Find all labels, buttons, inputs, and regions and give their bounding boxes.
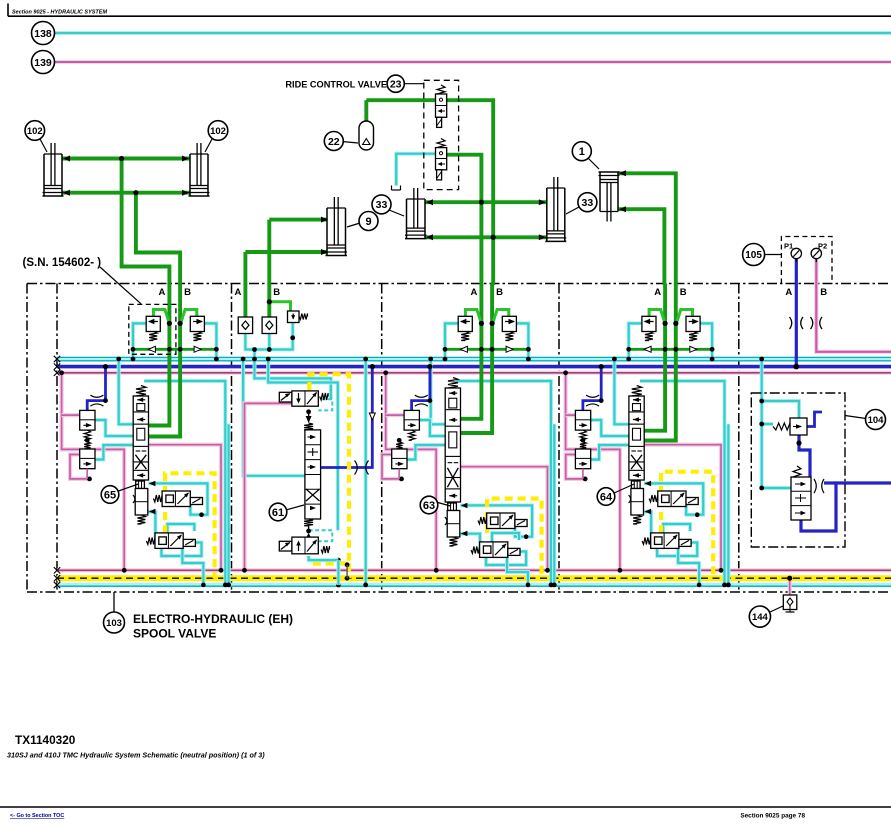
section 61 bright green jog bbox=[269, 302, 290, 311]
cylinder 1 bbox=[599, 172, 601, 212]
solenoid valve 63-1 bbox=[478, 517, 487, 524]
svg-text:33: 33 bbox=[376, 199, 388, 211]
svg-text:9: 9 bbox=[365, 216, 371, 228]
solenoid valve 65-1 bbox=[153, 495, 162, 502]
cylinder 9 green lines bbox=[269, 218, 327, 222]
ride control cyan tank line bbox=[396, 154, 435, 186]
svg-text:103: 103 bbox=[106, 618, 122, 629]
svg-text:61: 61 bbox=[272, 507, 284, 519]
cylinder 102 left bbox=[43, 154, 45, 196]
tank symbol bbox=[391, 186, 393, 191]
cylinder 9 bbox=[326, 208, 328, 256]
circle 144 bbox=[770, 606, 783, 612]
port relief valve 64 A bbox=[642, 316, 656, 331]
cyan pilot bus bbox=[57, 357, 891, 362]
svg-text:A: A bbox=[235, 287, 242, 298]
solenoid valve 64-1 bbox=[649, 495, 658, 502]
anticavitation line bbox=[629, 348, 712, 351]
cylinder 102 right bbox=[189, 154, 191, 196]
svg-text:138: 138 bbox=[34, 28, 52, 40]
label circle 65 bbox=[117, 484, 138, 492]
cylinder 1 green lines bbox=[618, 173, 676, 285]
svg-text:A: A bbox=[785, 287, 792, 298]
S.N. 154602 dashed box bbox=[129, 304, 176, 354]
circle 9 bbox=[347, 223, 360, 227]
svg-text:<- Go to Section TOC: <- Go to Section TOC bbox=[10, 813, 64, 819]
pressure reducing valve 64-2 bbox=[580, 442, 586, 449]
svg-text:1: 1 bbox=[579, 146, 585, 158]
main spool 65 bbox=[136, 386, 146, 397]
circle 105 bbox=[763, 254, 781, 256]
magenta bus bbox=[57, 371, 891, 375]
section cyan pilot wiring bbox=[119, 359, 134, 424]
valve 144 bbox=[783, 595, 797, 610]
section 61 blue pilot bbox=[321, 367, 372, 468]
svg-text:102: 102 bbox=[27, 126, 43, 137]
section 61 green work lines bbox=[243, 284, 247, 318]
circle 33 right bbox=[566, 207, 579, 214]
spool 64 pilot cap bbox=[631, 481, 640, 489]
accumulator 22 feed bbox=[364, 100, 368, 121]
pressure reducing valve 65-1 bbox=[80, 410, 95, 430]
cylinder 33 right bbox=[546, 188, 548, 241]
main spool 63 bbox=[448, 378, 458, 389]
104 box bbox=[751, 393, 845, 547]
circle 102 right bbox=[205, 139, 212, 152]
label circle 63 bbox=[436, 502, 450, 506]
bright green relief jogs bbox=[153, 310, 169, 323]
section yellow drain box bbox=[487, 499, 541, 579]
svg-text:B: B bbox=[680, 287, 687, 298]
page header rule bbox=[7, 4, 9, 17]
svg-text:Section 9025 - HYDRAULIC SYSTE: Section 9025 - HYDRAULIC SYSTEM bbox=[12, 10, 107, 16]
relief valve cyan sides bbox=[445, 323, 458, 359]
section cyan pilot wiring bbox=[614, 359, 629, 424]
gauge P1 bbox=[791, 248, 801, 258]
section 61 relief valve bbox=[288, 311, 300, 323]
section 61 yellow box bbox=[309, 374, 349, 563]
ride control valve element 1 bbox=[437, 85, 445, 94]
stabilizer cylinders 33 green lines bbox=[425, 200, 547, 204]
section yellow drain box bbox=[661, 472, 713, 579]
svg-text:SPOOL VALVE: SPOOL VALVE bbox=[133, 627, 216, 641]
svg-text:139: 139 bbox=[34, 57, 52, 69]
svg-text:104: 104 bbox=[868, 415, 885, 426]
circle 103 bbox=[104, 612, 125, 633]
svg-text:144: 144 bbox=[752, 612, 769, 623]
section 61 magenta wiring bbox=[245, 403, 305, 570]
104 regulator valve bbox=[791, 477, 811, 520]
solenoid valve 63-2 bbox=[471, 547, 480, 554]
104 blue lines bbox=[807, 412, 822, 427]
label circle 64 bbox=[613, 484, 634, 494]
bottom magenta bus bbox=[57, 568, 891, 572]
port relief valve 63 A bbox=[458, 316, 472, 331]
circle 104 bbox=[845, 416, 866, 419]
svg-text:Section 9025 page 78: Section 9025 page 78 bbox=[740, 813, 805, 820]
circle 103 leader bbox=[113, 592, 115, 612]
svg-text:B: B bbox=[184, 287, 191, 298]
pressure reducing valve 65-2 bbox=[84, 442, 90, 449]
bottom yellow tank bus bbox=[57, 575, 891, 581]
svg-text:RIDE CONTROL VALVE: RIDE CONTROL VALVE bbox=[285, 80, 387, 90]
gauge box 105 bbox=[781, 237, 832, 284]
svg-text:65: 65 bbox=[104, 489, 116, 501]
svg-text:B: B bbox=[496, 287, 503, 298]
section 61 cyan wiring bbox=[243, 359, 305, 476]
svg-text:22: 22 bbox=[328, 136, 340, 148]
line 139 (magenta) bbox=[55, 61, 891, 63]
144 stub bbox=[788, 578, 792, 595]
circle 1 bbox=[588, 158, 599, 169]
port relief valve 63 B bbox=[502, 316, 516, 331]
solenoid valve 64-2 bbox=[642, 538, 651, 545]
port relief valve 65 B bbox=[190, 316, 204, 331]
circle 22 bbox=[342, 142, 358, 144]
solenoid valve 65-2 bbox=[146, 538, 155, 545]
port relief valve 64 B bbox=[686, 316, 700, 331]
pressure reducing valve 64-1 bbox=[575, 410, 590, 430]
bright green relief jogs bbox=[465, 310, 481, 323]
ride control green to section 63A bbox=[447, 155, 482, 285]
svg-text:A: A bbox=[471, 287, 478, 298]
circle 61 bbox=[286, 505, 304, 510]
loader cylinders 102 green lines bbox=[62, 157, 190, 161]
anticavitation line bbox=[445, 348, 528, 351]
green work lines A/B bbox=[644, 284, 665, 431]
svg-text:64: 64 bbox=[600, 491, 613, 503]
section magenta pilot wiring bbox=[62, 373, 125, 571]
blue pressure bus bbox=[57, 365, 891, 369]
gauge port lines bbox=[795, 258, 798, 367]
ride control valve box bbox=[424, 80, 459, 189]
svg-text:P2: P2 bbox=[818, 242, 827, 251]
svg-text:33: 33 bbox=[582, 197, 594, 209]
svg-text:102: 102 bbox=[210, 126, 226, 137]
section blue pilot feed bbox=[412, 367, 430, 412]
plug symbols under A bbox=[790, 317, 792, 329]
S.N. label + leader bbox=[100, 267, 141, 304]
port relief valve 65 A bbox=[146, 316, 160, 331]
cylinder 33 left bbox=[406, 199, 408, 239]
circle 33 left bbox=[389, 210, 404, 216]
svg-text:A: A bbox=[654, 287, 661, 298]
section dividers bbox=[231, 284, 233, 593]
section 61 bottom solenoid bbox=[304, 519, 313, 526]
spool 63 pilot cap bbox=[448, 503, 457, 511]
section 61 anticavitation check B bbox=[262, 317, 276, 334]
bottom cyan bus bbox=[57, 583, 891, 588]
inner boundary line bbox=[56, 284, 58, 593]
accumulator 22 bbox=[359, 121, 374, 150]
main spool 64 bbox=[632, 386, 642, 397]
main spool 61 bbox=[305, 430, 321, 519]
section 61 cyan dashed loops bbox=[309, 399, 333, 410]
plug symbols under B bbox=[811, 317, 813, 329]
relief valve cyan sides bbox=[629, 323, 642, 359]
svg-text:A: A bbox=[159, 287, 166, 298]
svg-text:B: B bbox=[273, 287, 280, 298]
circle 102 left bbox=[40, 139, 47, 152]
ride control green to section 63B bbox=[366, 100, 493, 285]
page footer rule bbox=[0, 806, 891, 808]
section cyan pilot wiring bbox=[431, 359, 446, 424]
section 61 anticavitation check A bbox=[238, 317, 252, 334]
svg-text:105: 105 bbox=[745, 250, 762, 261]
section 61 top solenoid valve bbox=[279, 392, 292, 402]
svg-text:P1: P1 bbox=[784, 242, 793, 251]
svg-text:(S.N. 154602- ): (S.N. 154602- ) bbox=[23, 257, 102, 269]
anticavitation line bbox=[133, 348, 216, 351]
ride control valve element 2 bbox=[437, 139, 445, 148]
svg-text:23: 23 bbox=[390, 78, 402, 90]
section blue pilot feed bbox=[583, 367, 601, 412]
svg-text:ELECTRO-HYDRAULIC (EH): ELECTRO-HYDRAULIC (EH) bbox=[133, 612, 293, 626]
section magenta pilot wiring bbox=[386, 373, 437, 571]
EH valve block outer boundary bbox=[27, 283, 891, 285]
relief valve cyan sides bbox=[133, 323, 146, 359]
svg-text:310SJ and 410J TMC Hydraulic S: 310SJ and 410J TMC Hydraulic System Sche… bbox=[7, 751, 265, 760]
green work lines A/B bbox=[149, 284, 170, 426]
104 cyan feed bbox=[762, 359, 791, 488]
bright green relief jogs bbox=[649, 310, 665, 323]
svg-text:B: B bbox=[820, 287, 827, 298]
pressure reducing valve 63-2 bbox=[396, 442, 402, 449]
gauge P2 bbox=[811, 248, 821, 258]
spool 65 pilot cap bbox=[136, 481, 145, 489]
circle 23 bbox=[404, 83, 424, 85]
svg-text:TX1140320: TX1140320 bbox=[15, 733, 76, 747]
green work lines A/B bbox=[461, 284, 482, 419]
line 138 (cyan return) bbox=[55, 32, 891, 35]
104 relief valve bbox=[790, 418, 807, 435]
pressure reducing valve 63-1 bbox=[404, 410, 419, 430]
svg-text:63: 63 bbox=[423, 500, 435, 512]
section blue pilot feed bbox=[87, 367, 105, 412]
section yellow drain box bbox=[165, 473, 215, 578]
section magenta pilot wiring bbox=[566, 373, 620, 571]
